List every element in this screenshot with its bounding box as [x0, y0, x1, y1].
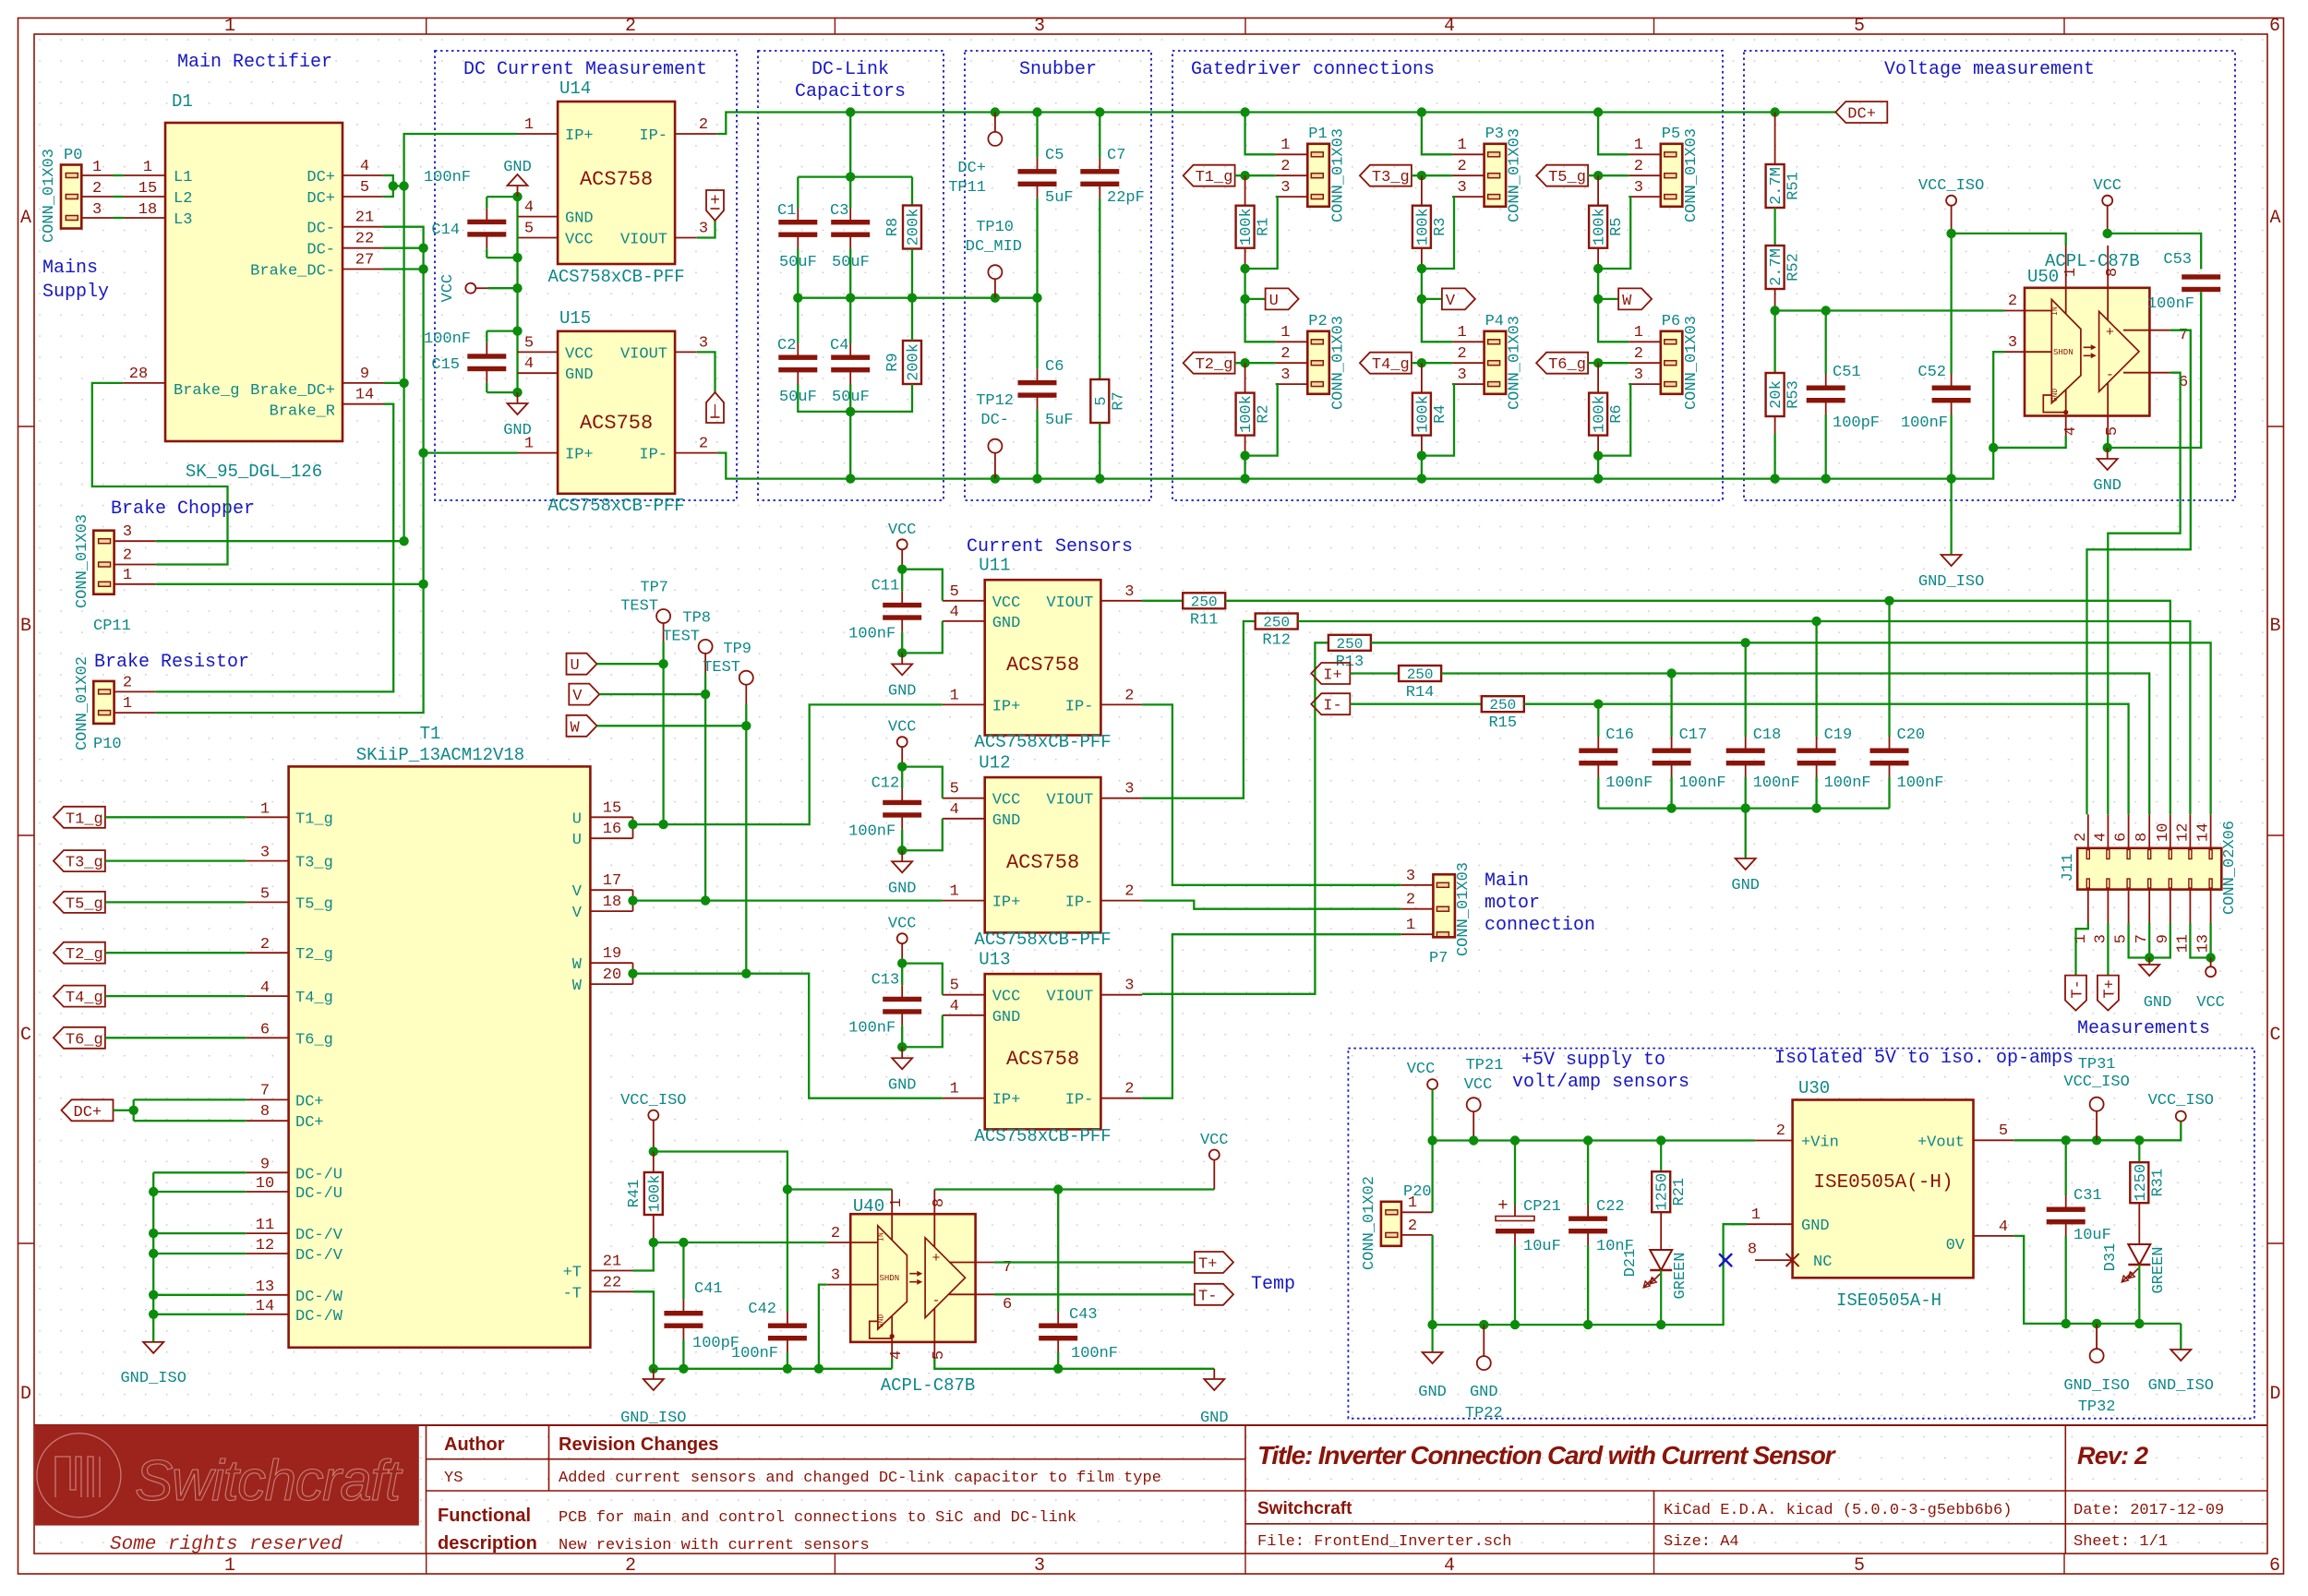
- svg-text:CONN_01X02: CONN_01X02: [1361, 1176, 1378, 1270]
- opto amplifier U50: [2025, 288, 2149, 416]
- J11 pin 7: [2148, 890, 2150, 923]
- svg-text:U30: U30: [1798, 1078, 1830, 1098]
- wire GND rail right: [934, 1359, 1214, 1369]
- wire DC+ bracket: [383, 175, 393, 197]
- U50 pin1: [2065, 246, 2067, 413]
- svg-text:C41: C41: [694, 1280, 723, 1298]
- svg-text:T1_g: T1_g: [1196, 169, 1233, 186]
- resistor R14: [1350, 672, 1399, 674]
- wire C53 bottom to GND: [2108, 292, 2202, 448]
- svg-text:KiCad E.D.A. kicad (5.0.0-3-g: KiCad E.D.A. kicad (5.0.0-3-g5ebb6b6): [1664, 1502, 2012, 1519]
- svg-text:2: 2: [1634, 158, 1643, 175]
- T1 right pins W: [590, 962, 632, 964]
- resistor R12: [1142, 621, 1256, 798]
- wire CP11 pin1 to DC-: [156, 583, 424, 585]
- U50 pin7: [2123, 330, 2170, 331]
- svg-text:2: 2: [123, 547, 132, 565]
- svg-text:U15: U15: [559, 308, 591, 329]
- svg-text:100nF: 100nF: [848, 1019, 896, 1037]
- svg-text:100nF: 100nF: [1071, 1345, 1118, 1362]
- wire trunk to U flag: [1244, 269, 1245, 299]
- wire W flag to trunk: [597, 725, 747, 726]
- svg-text:C16: C16: [1605, 726, 1634, 744]
- power GND below C11: [901, 653, 903, 664]
- svg-text:DC+: DC+: [74, 1104, 102, 1122]
- svg-text:+Vin: +Vin: [1801, 1134, 1839, 1152]
- U40 pin4: [891, 1338, 893, 1359]
- svg-text:DC-/U: DC-/U: [295, 1166, 343, 1183]
- svg-text:CONN_01X02: CONN_01X02: [74, 656, 91, 750]
- svg-text:VCC_ISO: VCC_ISO: [620, 1092, 686, 1110]
- svg-text:DC+: DC+: [1847, 106, 1876, 124]
- svg-text:5: 5: [524, 221, 534, 238]
- svg-text:2: 2: [1124, 1081, 1134, 1098]
- wire VCC to C53: [2108, 234, 2202, 270]
- wire U flag to trunk: [597, 663, 664, 665]
- svg-text:T-: T-: [1198, 1288, 1217, 1305]
- global label T4_g: [1360, 353, 1412, 374]
- svg-text:C11: C11: [872, 577, 900, 594]
- T1 pin7 pin8 DC+: [246, 1098, 289, 1100]
- svg-text:1: 1: [1406, 917, 1415, 934]
- svg-text:4: 4: [524, 199, 534, 217]
- svg-text:T-: T-: [2070, 979, 2087, 998]
- svg-text:TEST: TEST: [703, 659, 740, 677]
- connector P3: [1485, 144, 1507, 207]
- svg-text:GND: GND: [565, 366, 594, 384]
- svg-text:R14: R14: [1406, 684, 1435, 702]
- svg-text:+: +: [932, 1251, 940, 1266]
- wire T3_g to P3 pin2: [1412, 174, 1452, 176]
- svg-text:VCC: VCC: [439, 274, 457, 303]
- rectifier D1: [165, 123, 343, 441]
- LED D31: [2128, 1244, 2150, 1265]
- svg-text:8: 8: [931, 1198, 948, 1207]
- svg-text:CONN_01X03: CONN_01X03: [1683, 128, 1701, 222]
- svg-text:ACS758: ACS758: [1006, 654, 1079, 677]
- wire DC_MID rail: [797, 258, 799, 298]
- wire VCC to U12 pin5: [902, 767, 943, 798]
- svg-text:P0: P0: [64, 147, 82, 164]
- svg-text:VCC: VCC: [565, 345, 594, 363]
- svg-text:IP-: IP-: [639, 447, 667, 464]
- svg-text:L1: L1: [174, 169, 192, 186]
- svg-text:C22: C22: [1596, 1198, 1625, 1216]
- wire J11 pin3 to T+ flag: [2107, 923, 2109, 976]
- svg-text:7: 7: [260, 1082, 270, 1099]
- svg-text:12: 12: [2174, 823, 2192, 842]
- svg-text:GND: GND: [1418, 1384, 1447, 1401]
- svg-text:100k: 100k: [1238, 395, 1256, 433]
- svg-text:3: 3: [1406, 868, 1415, 885]
- svg-text:10uF: 10uF: [1523, 1238, 1561, 1255]
- svg-text:GND: GND: [888, 1076, 917, 1094]
- power VCC above C13: [897, 933, 908, 943]
- U50 pin6: [2123, 372, 2170, 374]
- svg-text:R2: R2: [1256, 404, 1273, 423]
- testpoint TP22: [1477, 1356, 1491, 1370]
- svg-text:IP+: IP+: [992, 698, 1021, 715]
- svg-text:GND: GND: [1470, 1384, 1498, 1401]
- svg-text:2: 2: [1457, 345, 1466, 363]
- wire R3 bottom to P3 pin3: [1422, 197, 1454, 269]
- wire C14 top: [487, 196, 517, 198]
- power GND below right rail: [1213, 1369, 1215, 1379]
- svg-text:2: 2: [1280, 345, 1290, 363]
- current sensor U15: [558, 331, 675, 494]
- svg-text:GND: GND: [1801, 1218, 1830, 1235]
- resistor R4: [1421, 363, 1423, 392]
- svg-text:description: description: [438, 1533, 537, 1554]
- wire trunk to DC- rail: [1421, 456, 1423, 479]
- wire C11 bottom to U11 pin4: [902, 621, 943, 653]
- svg-text:5: 5: [260, 885, 270, 903]
- power GND_ISO below T1 left: [143, 1342, 163, 1353]
- svg-text:5: 5: [950, 781, 959, 798]
- connector P7: [1433, 874, 1455, 937]
- svg-text:1: 1: [1634, 324, 1643, 342]
- svg-text:ACPL-C87B: ACPL-C87B: [881, 1375, 976, 1396]
- svg-text:I-: I-: [1323, 698, 1341, 715]
- U13 pins: [943, 994, 985, 996]
- wire T1_g to P1 pin2: [1235, 174, 1276, 176]
- svg-text:1: 1: [123, 567, 132, 584]
- svg-text:Main: Main: [1485, 870, 1529, 892]
- svg-text:VCC: VCC: [888, 916, 917, 933]
- svg-text:U: U: [572, 832, 582, 849]
- svg-text:Brake Chopper: Brake Chopper: [111, 498, 255, 520]
- svg-text:U12: U12: [979, 752, 1010, 773]
- svg-text:CONN_01X03: CONN_01X03: [1329, 316, 1347, 410]
- testpoint TP8: [699, 640, 713, 654]
- svg-text:U40: U40: [853, 1196, 884, 1217]
- svg-text:VIOUT: VIOUT: [620, 345, 667, 363]
- connector P20: [1381, 1202, 1401, 1246]
- wire T3_g: [105, 859, 246, 861]
- svg-text:R9: R9: [884, 353, 902, 371]
- svg-text:TP11: TP11: [948, 179, 986, 197]
- T1 pin 9 DC-/U: [246, 1171, 289, 1173]
- power GND below J11: [2148, 958, 2150, 966]
- svg-text:Gatedriver connections: Gatedriver connections: [1191, 59, 1435, 80]
- svg-text:100k: 100k: [646, 1175, 664, 1213]
- wire R13 to J11 pin14: [1371, 642, 2211, 814]
- svg-text:VCC_ISO: VCC_ISO: [1918, 177, 1984, 195]
- connector P10 Brake Resistor: [93, 681, 114, 724]
- svg-text:5: 5: [360, 179, 369, 197]
- svg-text:2: 2: [699, 436, 708, 453]
- svg-text:22pF: 22pF: [1107, 189, 1145, 207]
- svg-text:ACS758xCB-PFF: ACS758xCB-PFF: [974, 732, 1111, 752]
- svg-text:TP9: TP9: [723, 641, 751, 658]
- svg-text:SHDN: SHDN: [880, 1274, 900, 1283]
- svg-text:T6_g: T6_g: [66, 1031, 103, 1049]
- svg-text:2: 2: [92, 180, 102, 198]
- power flag U input: [567, 654, 597, 675]
- wire CP11 pin3 to Brake_DC+: [156, 540, 404, 542]
- svg-text:T4_g: T4_g: [295, 990, 333, 1007]
- wire P0 to D1 pins: [81, 174, 113, 176]
- wire T5_g to P5 pin2: [1588, 174, 1629, 176]
- svg-text:Rev: 2: Rev: 2: [2077, 1442, 2148, 1470]
- svg-text:21: 21: [355, 210, 374, 227]
- wire trunk to V flag: [1421, 269, 1423, 299]
- svg-text:4: 4: [360, 158, 369, 175]
- T1 pin 10 DC-/U: [246, 1191, 289, 1193]
- wire pin7 to J11 pin2: [2087, 330, 2191, 815]
- U50 pin8 VCC: [2107, 246, 2109, 414]
- wire trunk to P6 pin1: [1598, 299, 1629, 342]
- svg-text:1: 1: [1457, 324, 1466, 342]
- global label T6_g left: [54, 1027, 105, 1049]
- flag plus: [706, 190, 724, 221]
- wire trunk to DC- rail: [1597, 456, 1599, 479]
- svg-text:DC_MID: DC_MID: [966, 238, 1022, 256]
- svg-text:1: 1: [2062, 268, 2080, 277]
- svg-text:100nF: 100nF: [731, 1345, 778, 1362]
- svg-text:Snubber: Snubber: [1019, 59, 1097, 80]
- svg-text:200k: 200k: [906, 343, 923, 381]
- svg-text:T1_g: T1_g: [295, 810, 333, 828]
- capacitor C42: [787, 1312, 788, 1326]
- svg-text:2: 2: [1124, 687, 1134, 704]
- svg-text:ACS758: ACS758: [580, 168, 653, 191]
- J11 pin 6: [2128, 814, 2130, 848]
- wire C14 bottom: [487, 257, 517, 258]
- IGBT module T1: [289, 766, 591, 1347]
- current sensor U13: [985, 974, 1101, 1129]
- svg-text:DC-: DC-: [307, 221, 335, 238]
- power GND below C13: [901, 1047, 903, 1058]
- power GND below P20: [1431, 1325, 1433, 1352]
- svg-text:L3: L3: [174, 211, 192, 229]
- svg-text:TEST: TEST: [662, 628, 700, 645]
- global label DC+ at T1: [62, 1099, 114, 1121]
- svg-text:1: 1: [260, 800, 270, 818]
- J11 pin 11: [2189, 890, 2191, 923]
- svg-text:motor: motor: [1485, 893, 1540, 914]
- LED D21: [1650, 1250, 1672, 1270]
- svg-text:GND: GND: [565, 210, 594, 228]
- wire SHDN to GND_ISO: [1993, 352, 2004, 448]
- wire T6_g to P6 pin2: [1588, 362, 1629, 364]
- capacitor C15: [486, 342, 487, 356]
- connector P0: [61, 165, 81, 229]
- svg-text:2.7M: 2.7M: [1768, 248, 1785, 286]
- svg-text:VCC: VCC: [1200, 1132, 1229, 1149]
- testpoint TP7: [656, 609, 670, 623]
- svg-text:VCC: VCC: [565, 231, 594, 248]
- svg-text:C18: C18: [1753, 726, 1782, 744]
- D1 right pins DC+: [343, 174, 383, 176]
- svg-text:ISE0505A(-H): ISE0505A(-H): [1813, 1172, 1953, 1194]
- svg-text:100k: 100k: [1414, 208, 1432, 246]
- connector J11: [2077, 848, 2221, 890]
- svg-text:ACS758xCB-PFF: ACS758xCB-PFF: [974, 930, 1111, 950]
- D1 pin 14 Brake_R: [343, 403, 384, 405]
- global label T2_g: [1184, 353, 1235, 374]
- wire U40 pin8 VCC row: [787, 1188, 892, 1190]
- svg-text:2: 2: [260, 936, 270, 954]
- wire trunk to W flag: [1597, 269, 1599, 299]
- capacitor C41: [682, 1300, 684, 1314]
- svg-text:SK_95_DGL_126: SK_95_DGL_126: [186, 462, 322, 482]
- svg-text:5: 5: [1093, 396, 1111, 405]
- svg-text:14: 14: [355, 387, 374, 404]
- power flag V input: [569, 684, 599, 705]
- wire TP8 trunk: [704, 673, 706, 901]
- svg-text:C7: C7: [1107, 147, 1125, 164]
- capacitor C51: [1825, 374, 1827, 388]
- svg-text:GND_ISO: GND_ISO: [1918, 573, 1984, 591]
- U30 pin5: [1974, 1139, 2014, 1141]
- svg-text:100nF: 100nF: [1605, 774, 1653, 792]
- U50 pin4: [2065, 416, 2067, 437]
- U50 pin3 SHDN: [2004, 351, 2051, 353]
- svg-text:100nF: 100nF: [848, 625, 896, 642]
- resistor R6: [1597, 363, 1599, 392]
- wire trunk to DC- rail: [1244, 456, 1245, 479]
- wire VCC_ISO row: [654, 1152, 787, 1190]
- svg-text:VCC: VCC: [1464, 1076, 1493, 1094]
- capacitor C12: [901, 788, 903, 802]
- svg-text:GREEN: GREEN: [2150, 1246, 2168, 1293]
- svg-text:GND: GND: [1200, 1410, 1229, 1427]
- global label I+: [1311, 663, 1350, 684]
- svg-text:Switchcraft: Switchcraft: [1257, 1499, 1352, 1518]
- capacitor C6: [1037, 368, 1039, 382]
- wire DC- bracket at T1: [152, 1172, 154, 1342]
- testpoint TP9: [739, 671, 753, 685]
- svg-text:4: 4: [950, 998, 959, 1015]
- current sensor U11: [985, 580, 1101, 735]
- svg-text:VCC: VCC: [1407, 1061, 1436, 1078]
- wire TP9 trunk: [745, 704, 747, 974]
- J11 pin 12: [2189, 814, 2191, 848]
- svg-text:volt/amp sensors: volt/amp sensors: [1512, 1072, 1689, 1093]
- svg-text:3: 3: [1124, 978, 1134, 995]
- svg-text:18: 18: [603, 894, 621, 911]
- svg-text:100k: 100k: [1414, 395, 1432, 433]
- svg-text:4: 4: [524, 355, 534, 373]
- svg-text:2: 2: [1408, 1218, 1417, 1235]
- wire DC-/V: [153, 1232, 246, 1234]
- svg-text:P4: P4: [1485, 313, 1504, 330]
- svg-text:1: 1: [224, 16, 235, 37]
- svg-text:19: 19: [603, 945, 621, 963]
- wire DC+ rail: [717, 113, 1835, 135]
- power VCC right: [1209, 1150, 1220, 1160]
- svg-text:VCC: VCC: [2093, 177, 2122, 195]
- wire +T to R41 node: [633, 1242, 654, 1271]
- svg-text:14: 14: [2195, 823, 2213, 842]
- U50 internal graphics: [2051, 299, 2081, 402]
- svg-text:T+: T+: [2101, 979, 2119, 998]
- resistor R41: [653, 1152, 655, 1173]
- power VCC_ISO right corner: [2176, 1111, 2186, 1122]
- svg-text:DC-/W: DC-/W: [295, 1289, 343, 1306]
- global label T5_g: [1536, 165, 1588, 186]
- wire pin6 to J11 pin4: [2108, 373, 2180, 815]
- svg-text:Isolated 5V to iso. op-amps: Isolated 5V to iso. op-amps: [1774, 1048, 2074, 1069]
- power VCC below J11: [2210, 958, 2212, 967]
- global label T3_g: [1360, 165, 1412, 186]
- svg-text:W: W: [572, 978, 583, 995]
- capacitor C31: [2065, 1195, 2067, 1209]
- svg-text:2: 2: [1124, 883, 1134, 901]
- testpoint TP11: [988, 132, 1002, 146]
- power GND_ISO below U40 rail: [653, 1369, 655, 1379]
- svg-text:3: 3: [123, 523, 132, 541]
- wire Brake_g to CP11 pin2: [92, 383, 228, 565]
- global label DC+ flag top: [1835, 102, 1887, 123]
- wire pin6 to T- flag: [994, 1293, 1195, 1295]
- flag T+ at J11: [2098, 976, 2119, 1011]
- svg-text:TP10: TP10: [976, 219, 1014, 236]
- svg-text:2.7M: 2.7M: [1768, 167, 1785, 205]
- svg-text:Supply: Supply: [42, 282, 109, 303]
- svg-text:10: 10: [2155, 823, 2172, 842]
- svg-text:9: 9: [360, 366, 369, 383]
- svg-text:Measurements: Measurements: [2077, 1018, 2210, 1039]
- svg-text:4: 4: [1999, 1218, 2008, 1236]
- svg-text:Voltage measurement: Voltage measurement: [1884, 59, 2095, 80]
- svg-text:W: W: [1622, 293, 1632, 310]
- current sensor U12: [985, 777, 1101, 932]
- wire GND_ISO rail U40: [654, 1368, 892, 1370]
- svg-text:New revision with current sens: New revision with current sensors: [559, 1537, 870, 1554]
- svg-text:CONN_01X03: CONN_01X03: [1507, 316, 1524, 410]
- svg-text:11: 11: [256, 1217, 274, 1234]
- title block: [34, 1424, 2267, 1426]
- svg-text:15: 15: [603, 799, 621, 817]
- global label T2_g left: [54, 942, 105, 964]
- wire trunk to P4 pin1: [1422, 299, 1452, 342]
- svg-text:3: 3: [1034, 16, 1045, 37]
- svg-text:-: -: [932, 1293, 940, 1309]
- svg-text:1: 1: [1280, 324, 1290, 342]
- svg-text:GND_ISO: GND_ISO: [120, 1370, 186, 1387]
- svg-text:GND: GND: [503, 422, 532, 439]
- svg-text:DC Current Measurement: DC Current Measurement: [463, 59, 707, 80]
- svg-text:IP+: IP+: [565, 447, 594, 464]
- svg-text:GND: GND: [1731, 877, 1760, 894]
- svg-text:GND_ISO: GND_ISO: [2148, 1377, 2214, 1395]
- svg-text:R53: R53: [1785, 380, 1803, 409]
- global label I-: [1311, 693, 1350, 714]
- svg-text:+Vout: +Vout: [1917, 1134, 1965, 1152]
- svg-text:3: 3: [1457, 366, 1466, 384]
- capacitor CP21 polarized: [1514, 1205, 1516, 1218]
- svg-text:3: 3: [2008, 334, 2017, 352]
- svg-text:Date: 2017-12-09: Date: 2017-12-09: [2074, 1502, 2224, 1519]
- svg-text:5: 5: [950, 583, 959, 601]
- wire DC+ trunk to U14: [404, 134, 518, 541]
- svg-text:Functional: Functional: [438, 1506, 531, 1526]
- svg-text:+: +: [710, 192, 720, 210]
- svg-text:-: -: [2106, 367, 2114, 383]
- section box Snubber: [965, 51, 1151, 500]
- svg-text:1: 1: [92, 159, 102, 176]
- svg-text:P3: P3: [1485, 126, 1504, 143]
- svg-text:2: 2: [625, 16, 636, 37]
- svg-text:3: 3: [1634, 366, 1643, 384]
- svg-text:GND: GND: [992, 615, 1021, 632]
- T1 pin 5 T5_g: [246, 901, 289, 903]
- wire W net: [633, 974, 943, 1098]
- svg-text:V: V: [572, 688, 583, 705]
- svg-text:DC+: DC+: [307, 190, 335, 208]
